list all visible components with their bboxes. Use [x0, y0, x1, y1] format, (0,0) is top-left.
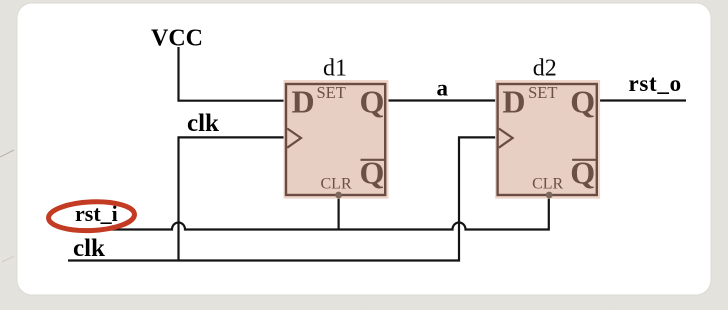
d1 CLR junction dot [335, 192, 342, 199]
svg-text:rst_o: rst_o [629, 71, 682, 96]
svg-text:Q: Q [570, 84, 595, 120]
d1 Qbar overline [361, 159, 386, 161]
wire clk to clock pin of d1 and down to clk rail [179, 137, 289, 260]
wire CLR of d1 down to rst_i rail [338, 195, 340, 230]
svg-text:SET: SET [528, 83, 557, 102]
d2 CLR junction dot [546, 192, 553, 199]
wire bottom clk rail up to clock pin of d2 [68, 137, 498, 260]
wire VCC to D of d1 [179, 47, 287, 101]
scratch mark left [0, 150, 14, 157]
d2 body border [498, 84, 597, 195]
wire rst_o from Q of d2 [597, 99, 687, 101]
d2 Qbar overline [572, 159, 597, 161]
svg-text:d2: d2 [533, 56, 557, 82]
svg-text:clk: clk [187, 110, 219, 137]
svg-text:Q: Q [360, 84, 385, 120]
annotation ellipse around rst_i [48, 200, 135, 232]
svg-text:CLR: CLR [321, 176, 352, 193]
d2 clock chevron [499, 129, 513, 148]
scratch mark bottom-left [2, 256, 14, 262]
flip-flop d1 [284, 56, 389, 199]
svg-text:D: D [502, 84, 525, 120]
wire rst_i rail with hops over clk verticals, to CLR of d2 [68, 195, 549, 230]
wire net a from Q of d1 to D of d2 [385, 99, 498, 101]
d2 body halo [495, 80, 600, 199]
svg-text:VCC: VCC [151, 25, 203, 51]
d1 body halo [284, 80, 389, 199]
svg-text:d1: d1 [323, 56, 347, 82]
svg-text:a: a [437, 76, 449, 101]
svg-text:CLR: CLR [532, 176, 563, 193]
d1 clock chevron [287, 129, 301, 148]
d1 body border [286, 84, 385, 195]
svg-text:D: D [292, 84, 315, 120]
svg-text:clk: clk [73, 235, 105, 262]
flip-flop d2 [495, 56, 600, 199]
svg-text:SET: SET [317, 83, 346, 102]
